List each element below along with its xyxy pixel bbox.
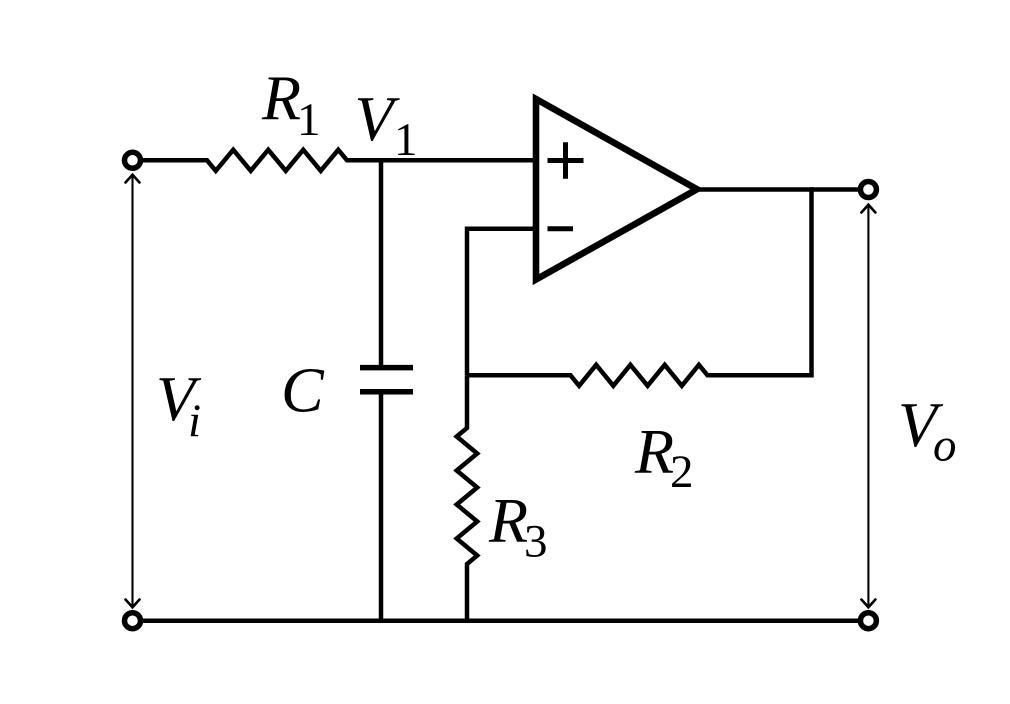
svg-text:R: R bbox=[261, 63, 301, 134]
svg-text:R: R bbox=[634, 416, 674, 487]
svg-text:o: o bbox=[933, 420, 957, 472]
svg-text:C: C bbox=[281, 355, 325, 426]
svg-text:R: R bbox=[488, 485, 528, 556]
svg-text:3: 3 bbox=[524, 516, 548, 568]
svg-text:i: i bbox=[188, 395, 201, 447]
svg-text:1: 1 bbox=[297, 94, 321, 146]
svg-text:1: 1 bbox=[394, 114, 418, 166]
svg-text:2: 2 bbox=[670, 446, 694, 498]
